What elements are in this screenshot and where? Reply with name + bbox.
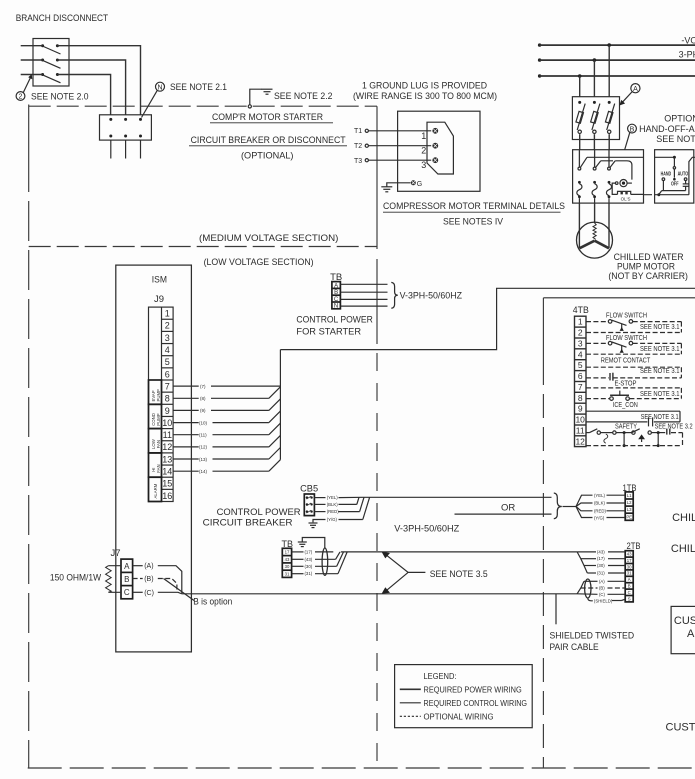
svg-text:(RED): (RED) (327, 509, 340, 514)
svg-text:(9): (9) (200, 408, 206, 413)
svg-text:CHILL: CHILL (672, 512, 695, 524)
svg-text:PE: PE (626, 514, 632, 519)
svg-text:A: A (687, 628, 695, 640)
svg-text:30: 30 (285, 564, 290, 569)
svg-text:3-PHASE: 3-PHASE (679, 50, 695, 60)
svg-text:-VOLTS: -VOLTS (681, 35, 695, 45)
svg-text:(11): (11) (199, 433, 207, 438)
1TB wire Y/G (594, 515, 625, 520)
svg-text:(17): (17) (597, 556, 605, 561)
svg-text:CB5: CB5 (300, 483, 318, 493)
svg-text:B: B (334, 290, 338, 296)
ISM module box (116, 265, 192, 652)
control wire from pole1 to HOA (587, 156, 674, 158)
svg-text:9: 9 (578, 404, 583, 414)
svg-text:PUMP: PUMP (156, 413, 161, 426)
ground tap on boundary with terminal (248, 89, 262, 108)
J9 relay label ALARM pins 15-16 (149, 477, 162, 501)
wire brace to 1TB fan (563, 506, 577, 508)
svg-text:(SHIELD): (SHIELD) (594, 598, 613, 603)
2TB terminal labels (627, 552, 632, 602)
svg-text:V-3PH-50/60HZ: V-3PH-50/60HZ (400, 291, 463, 302)
J9 pin numbers (162, 309, 172, 501)
svg-text:OPTIONAL WIRING: OPTIONAL WIRING (424, 712, 494, 721)
chilled water pump motor (577, 222, 613, 258)
pump starter box B (573, 150, 644, 203)
wire G to ground (387, 183, 411, 187)
legend sample required control wiring (400, 699, 527, 708)
svg-text:V-3PH-50/60HZ: V-3PH-50/60HZ (394, 524, 459, 535)
svg-text:SEE NOTES IV: SEE NOTES IV (443, 216, 504, 227)
svg-text:12: 12 (162, 442, 172, 452)
svg-text:(43): (43) (597, 549, 605, 554)
svg-text:FLOW SWITCH: FLOW SWITCH (606, 311, 647, 320)
J9 output wire 7 with label (173, 384, 280, 389)
svg-text:8: 8 (165, 394, 170, 404)
J9 output wire 9 with label (173, 399, 280, 413)
branch disconnect switch box (33, 39, 69, 87)
svg-text:CIRCUIT BREAKER OR DISCONNECT: CIRCUIT BREAKER OR DISCONNECT (191, 135, 346, 146)
disconnect switch pole 3 (41, 73, 60, 83)
svg-text:(Y/G): (Y/G) (594, 515, 605, 520)
svg-text:5: 5 (165, 357, 170, 367)
connector J7 (111, 548, 133, 599)
2TB fan wire C (577, 592, 625, 597)
svg-text:PUMP: PUMP (156, 389, 161, 402)
symbol circled A (631, 84, 640, 93)
svg-text:9: 9 (165, 406, 170, 416)
svg-text:OL'S: OL'S (621, 196, 631, 201)
TB lower terminal labels (285, 550, 290, 577)
wire T2 to terminal 2 (368, 145, 431, 147)
svg-text:SEE NOTE 2.0: SEE NOTE 2.0 (31, 92, 89, 103)
svg-text:CUST: CUST (674, 615, 695, 627)
svg-text:L1: L1 (627, 493, 632, 498)
svg-text:1: 1 (165, 309, 170, 319)
junction for shield cable label (555, 594, 557, 625)
symbol circled B (628, 124, 637, 133)
svg-text:OR: OR (501, 502, 515, 513)
svg-text:1: 1 (421, 131, 426, 141)
4TB terminal numbers (575, 317, 585, 447)
overload element pole 3 (606, 181, 611, 203)
overload element pole 1 (577, 181, 582, 203)
brace for control power feed (391, 282, 398, 308)
svg-text:2: 2 (421, 145, 426, 155)
svg-text:SEE NOTE 3.2: SEE NOTE 3.2 (655, 421, 693, 430)
svg-text:OFF: OFF (671, 181, 679, 187)
svg-text:S: S (628, 596, 631, 601)
customer wiring boundary top horizontal (543, 297, 695, 299)
svg-text:30: 30 (627, 564, 632, 569)
svg-text:OPTIONAL: OPTIONAL (664, 113, 695, 123)
svg-text:31: 31 (627, 571, 632, 576)
2TB shield drain wire (588, 598, 625, 603)
svg-text:(30): (30) (597, 563, 605, 568)
svg-text:G: G (417, 181, 422, 188)
wires fuse box to starter box (580, 134, 610, 150)
J9 pin cells 1-16 (162, 319, 174, 489)
leader arrow from note 2 to wire (23, 74, 32, 92)
label COMPRESSOR MOTOR TERMINAL DETAILS (383, 201, 565, 212)
svg-text:REMOT CONTACT: REMOT CONTACT (601, 355, 651, 364)
svg-text:LEGEND:: LEGEND: (424, 672, 457, 681)
svg-text:C: C (334, 297, 339, 303)
svg-text:(14): (14) (199, 469, 208, 474)
svg-text:(A): (A) (599, 579, 605, 584)
3-phase supply line L1 (538, 43, 695, 46)
svg-text:13: 13 (162, 454, 172, 464)
svg-text:(C): (C) (599, 592, 606, 597)
svg-text:E-STOP: E-STOP (615, 378, 637, 387)
wire pole3 to terminal block (57, 75, 110, 115)
svg-text:J9: J9 (154, 294, 164, 305)
svg-text:T3: T3 (354, 158, 362, 165)
resistor 150 OHM/1W across J7 A-C (106, 566, 121, 593)
svg-text:REQUIRED POWER WIRING: REQUIRED POWER WIRING (424, 685, 522, 694)
svg-text:N: N (157, 84, 162, 91)
svg-text:7: 7 (165, 382, 170, 392)
svg-text:(A): (A) (144, 563, 153, 570)
svg-text:12: 12 (575, 436, 585, 446)
svg-text:5: 5 (578, 360, 583, 370)
svg-text:10: 10 (575, 415, 585, 425)
svg-text:(43): (43) (305, 557, 313, 562)
svg-text:FOR STARTER: FOR STARTER (296, 326, 361, 337)
svg-text:(B): (B) (599, 586, 605, 591)
2TB fan wire 17 (581, 556, 625, 561)
remote contact circuit terminals 5-6 (586, 367, 681, 381)
J7 wire C (133, 590, 182, 597)
cabinet boundary top horizontal (29, 105, 377, 107)
svg-text:ALARM: ALARM (153, 483, 158, 498)
svg-text:COMP'R MOTOR STARTER: COMP'R MOTOR STARTER (212, 112, 323, 123)
HOA selector common (673, 156, 676, 181)
1TB wire BLK (594, 501, 625, 506)
wire T1 to terminal 1 (368, 130, 431, 132)
J7 pin letters (124, 562, 130, 597)
CB5 wire Y/G with ground (313, 497, 370, 522)
3-phase supply line L3 (538, 74, 695, 77)
svg-text:FLOW SWITCH: FLOW SWITCH (606, 333, 647, 342)
ground symbol below CB5 (309, 523, 318, 528)
disconnect switch pole 1 (41, 44, 60, 54)
ground symbol above TB with drain wire (298, 538, 325, 549)
svg-text:(10): (10) (199, 420, 208, 425)
J9 relay label EVAP PUMP pins 7-8 (149, 380, 162, 404)
label COMP'R MOTOR STARTER (210, 112, 333, 123)
legend sample optional wiring (400, 712, 494, 721)
svg-text:T1: T1 (354, 128, 362, 135)
svg-text:2: 2 (19, 94, 23, 101)
svg-text:(BLK): (BLK) (327, 502, 339, 507)
svg-text:4: 4 (578, 349, 583, 359)
svg-text:(30): (30) (305, 564, 313, 569)
HOA hand contact (662, 178, 665, 191)
wire stubs below terminal block (111, 140, 141, 158)
J9 relay label LOW FAN pins 11-12 (149, 429, 162, 453)
note N symbol circled N (156, 82, 165, 91)
terminal strip 1TB (625, 492, 633, 520)
J9 output wire 13 with label (173, 448, 280, 462)
svg-text:B: B (124, 575, 129, 584)
svg-text:B: B (630, 126, 635, 133)
flow switch 1 circuit terminals 1-2 (586, 320, 681, 333)
coil link wire poles 2-3 (601, 161, 632, 180)
svg-text:SEE NOTE 3.5: SEE NOTE 3.5 (430, 569, 488, 580)
HOA output bus (657, 191, 685, 197)
starter contact pole 3 (608, 150, 616, 170)
svg-text:A: A (334, 283, 338, 289)
terminal block bottom pins (109, 135, 142, 138)
overload element pole 2 (592, 181, 597, 203)
tap junction L2 (593, 58, 597, 96)
CB5 wire BLK (314, 497, 359, 507)
cabinet boundary right vertical at x=377 (376, 106, 378, 768)
svg-text:B: B (628, 584, 631, 589)
2TB bundle spine upper (577, 552, 587, 573)
wire incoming phase A (21, 45, 43, 47)
fuse F3 (605, 101, 614, 134)
fused disconnect box A (572, 97, 619, 140)
ground stud G (411, 180, 422, 188)
svg-text:FAN: FAN (156, 464, 161, 472)
J9 output wire 8 with label (173, 387, 280, 401)
2TB fan wire 43 (577, 549, 625, 554)
TB wire B (340, 291, 387, 293)
svg-text:SHIELDED TWISTED: SHIELDED TWISTED (550, 631, 635, 642)
terminal block TB control power (330, 272, 342, 309)
svg-text:2: 2 (165, 321, 170, 331)
starter contact pole 1 (578, 150, 587, 170)
svg-text:CIRCUIT BREAKER: CIRCUIT BREAKER (203, 518, 293, 529)
svg-text:11: 11 (163, 430, 172, 440)
wire pole2 to terminal block (57, 60, 125, 115)
J9 output wire 12 with label (173, 435, 280, 449)
svg-text:31: 31 (285, 572, 290, 577)
2TB fan wire 31 (587, 571, 625, 576)
2TB fan wire 30 (584, 563, 625, 568)
TB wire 31 (292, 552, 348, 576)
svg-text:N: N (334, 304, 338, 310)
svg-text:HAND-OFF-A: HAND-OFF-A (639, 124, 695, 134)
svg-text:A: A (633, 86, 638, 93)
ice machine circuit terminals 9-10 (586, 411, 680, 426)
svg-text:COMPRESSOR MOTOR TERMINAL DETA: COMPRESSOR MOTOR TERMINAL DETAILS (383, 201, 565, 212)
leader from circled A to fuse box (619, 92, 632, 106)
svg-text:1: 1 (578, 317, 583, 327)
svg-text:AUTO: AUTO (678, 172, 689, 178)
svg-text:SEE NOTE 3.1: SEE NOTE 3.1 (640, 366, 680, 375)
svg-text:J7: J7 (111, 548, 121, 559)
starter contact pole 2 (593, 150, 601, 170)
J9 relay label HI FAN pins 13-14 (149, 453, 162, 477)
2TB bundle spine lower (577, 581, 584, 594)
svg-text:CONTROL POWER: CONTROL POWER (217, 507, 301, 518)
customer box upper (671, 606, 695, 653)
svg-text:(17): (17) (305, 549, 313, 554)
svg-text:FAN: FAN (156, 440, 161, 448)
svg-text:SEE NOTE 3.1: SEE NOTE 3.1 (641, 412, 679, 421)
svg-text:(12): (12) (199, 445, 208, 450)
TB wire N (340, 305, 387, 307)
terminal block top pins (109, 118, 142, 121)
motor feed wires (579, 203, 609, 248)
svg-text:CONTROL POWER: CONTROL POWER (296, 314, 373, 325)
svg-text:17: 17 (627, 558, 632, 563)
svg-text:PAIR CABLE: PAIR CABLE (550, 642, 599, 653)
contactor coil M (615, 180, 632, 187)
2TB fan wire B optional (581, 586, 625, 591)
svg-text:BRANCH DISCONNECT: BRANCH DISCONNECT (16, 13, 109, 24)
shielded pair trunk wire 1 (341, 551, 577, 553)
J9 output wire 11 with label (173, 423, 280, 437)
svg-text:(YEL): (YEL) (594, 493, 606, 498)
svg-text:43: 43 (627, 552, 632, 557)
svg-text:A: A (124, 562, 130, 571)
svg-text:(YEL): (YEL) (327, 495, 339, 500)
svg-text:SEE NOTE 3.1: SEE NOTE 3.1 (640, 389, 680, 398)
legend box (395, 665, 533, 728)
J7 wire A (133, 563, 182, 594)
svg-text:7: 7 (578, 382, 583, 392)
svg-text:ISM: ISM (152, 274, 167, 285)
1TB fan wires (576, 495, 593, 517)
svg-text:2: 2 (578, 328, 583, 338)
svg-text:(NOT BY CARRIER): (NOT BY CARRIER) (608, 271, 688, 282)
fuse F1 (576, 101, 585, 134)
svg-text:(LOW VOLTAGE SECTION): (LOW VOLTAGE SECTION) (204, 257, 314, 268)
svg-text:(13): (13) (199, 457, 208, 462)
svg-text:A: A (628, 577, 631, 582)
flow switch 2 circuit terminals 3-4 (586, 341, 681, 354)
3-phase supply line L2 (538, 58, 695, 61)
compressor motor terminal details box (398, 111, 480, 191)
TB wire 43 (292, 552, 340, 562)
terminal T1 label and pin (354, 128, 368, 135)
1TB wire YEL (594, 493, 625, 498)
svg-text:SEE NOTE 3.1: SEE NOTE 3.1 (640, 322, 680, 331)
brace joining feeds at 1TB (554, 493, 562, 519)
J9 bundle spine (279, 350, 281, 460)
label CIRCUIT BREAKER OR DISCONNECT (189, 135, 347, 146)
svg-text:T2: T2 (354, 143, 362, 150)
svg-text:L3: L3 (627, 507, 632, 512)
svg-text:6: 6 (165, 369, 170, 379)
CB5 wire YEL (314, 495, 362, 500)
fuse F2 (591, 101, 600, 134)
svg-text:REQUIRED CONTROL WIRING: REQUIRED CONTROL WIRING (424, 699, 528, 708)
svg-text:15: 15 (162, 479, 172, 489)
svg-text:11: 11 (576, 425, 585, 435)
HOA auto contact with capacitor (683, 178, 689, 191)
alternate feed wire (OR) (455, 513, 552, 515)
svg-text:(31): (31) (305, 571, 313, 576)
svg-text:C: C (124, 588, 130, 597)
motor terminal stud 1 (432, 128, 438, 134)
leader B is option (164, 579, 195, 601)
disconnect switch pole 2 (41, 59, 60, 69)
svg-text:(WIRE RANGE IS 300 TO 800 MCM): (WIRE RANGE IS 300 TO 800 MCM) (353, 91, 497, 102)
TB wire A (340, 283, 387, 285)
svg-text:(OPTIONAL): (OPTIONAL) (241, 150, 294, 161)
hand-off-auto selector box (655, 150, 694, 203)
J9 relay label COND PUMP pins 9-10 (149, 404, 162, 428)
tap junction L3 (578, 74, 582, 97)
svg-text:4TB: 4TB (573, 305, 589, 316)
HOA inner right wire with exit (689, 157, 695, 194)
svg-text:(Y/G): (Y/G) (327, 517, 338, 522)
ice contact circuit terminals 7-8 (586, 388, 681, 401)
svg-text:HAND: HAND (661, 172, 672, 178)
J9 output wire 10 with label (173, 411, 280, 425)
1TB wire RED (594, 509, 625, 514)
svg-text:L2: L2 (627, 500, 632, 505)
control power trunk wire to 1TB (362, 496, 552, 498)
svg-text:SEE NOTE 3.1: SEE NOTE 3.1 (640, 344, 680, 353)
note 3.5 bundle marker (382, 552, 426, 594)
svg-text:2TB: 2TB (627, 541, 641, 551)
terminal T3 label and pin (354, 158, 368, 165)
svg-text:14: 14 (162, 467, 172, 477)
shielded twisted pair trunk wire 2 (182, 593, 577, 595)
leader from circled N to terminal block (142, 90, 158, 117)
terminal T2 label and pin (354, 143, 368, 150)
motor terminal housing outline (427, 122, 453, 174)
cabinet boundary left vertical (medium/low voltage enclosure) (28, 105, 30, 769)
terminal strip 2TB (625, 551, 633, 602)
ground symbol in terminal box (381, 187, 392, 192)
svg-text:43: 43 (285, 557, 290, 562)
svg-text:SEE NOTE 2.2: SEE NOTE 2.2 (274, 91, 333, 102)
bottom cabinet boundary (28, 767, 695, 769)
circuit breaker CB5 body (304, 494, 314, 516)
terminal strip TB lower (282, 548, 291, 577)
motor terminal stud 3 (432, 157, 438, 163)
leader from circled B to starter box (625, 132, 630, 150)
legend sample required power wiring (400, 685, 522, 694)
cable shield oval TB (322, 548, 328, 575)
motor terminal stud 2 (432, 143, 438, 149)
svg-text:(8): (8) (200, 396, 206, 401)
TB wire C (340, 298, 387, 300)
svg-text:(RED): (RED) (594, 509, 607, 514)
svg-text:3: 3 (578, 338, 583, 348)
HOA bottom wire to OL circuit (644, 194, 689, 196)
tap junction L1 (607, 43, 611, 96)
TB wire 30 (292, 552, 344, 569)
svg-text:(BLK): (BLK) (594, 501, 606, 506)
svg-text:150 OHM/1W: 150 OHM/1W (50, 572, 101, 583)
TB pin letters A B C N (334, 283, 339, 309)
TB wire 17 (292, 549, 334, 554)
svg-text:SEE NOTE: SEE NOTE (656, 134, 695, 144)
medium/low voltage section divider (29, 246, 377, 248)
svg-text:3: 3 (165, 333, 170, 343)
starter terminal block (100, 115, 152, 140)
ground symbol for note 2.2 (262, 89, 273, 94)
svg-text:ICE_CON: ICE_CON (613, 400, 638, 409)
svg-text:10: 10 (162, 418, 172, 428)
safety chain circuit terminals 11-12 (586, 429, 683, 448)
svg-text:CHILL: CHILL (671, 543, 695, 555)
svg-text:C: C (628, 590, 631, 595)
wire T3 to terminal 3 (368, 159, 431, 161)
cable shield oval 2TB (585, 579, 591, 598)
svg-text:(B): (B) (144, 576, 153, 583)
svg-text:4: 4 (165, 345, 170, 355)
J7 wire B optional (133, 576, 177, 591)
